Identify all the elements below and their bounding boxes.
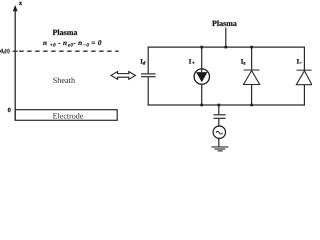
electrode box bbox=[15, 110, 117, 121]
wire current-source branch upper bbox=[201, 47, 203, 73]
RF source circle bbox=[213, 126, 225, 138]
ground line 1 bbox=[211, 146, 228, 148]
junction bottom rail at source chain bbox=[218, 104, 221, 107]
bottom rail bbox=[148, 104, 305, 106]
svg-text:0: 0 bbox=[8, 107, 11, 114]
wire source chain middle bbox=[218, 119, 220, 126]
wire source chain lower bbox=[218, 138, 220, 146]
dashed sheath-edge line bbox=[19, 50, 118, 52]
wire diode Ie branch upper bbox=[251, 47, 253, 71]
axis tick at ds(t) bbox=[13, 50, 18, 52]
diode Ie triangle bbox=[244, 71, 260, 85]
capacitor Cs top plate bbox=[141, 73, 156, 75]
junction top rail at I+ branch bbox=[200, 46, 203, 49]
diode Ie cathode bar bbox=[244, 69, 260, 71]
equivalence double arrow bbox=[111, 72, 135, 80]
wire capacitor branch upper bbox=[147, 47, 149, 74]
diode I- triangle bbox=[296, 71, 312, 85]
diode I- cathode bar bbox=[297, 69, 312, 71]
svg-text:Sheath: Sheath bbox=[53, 76, 75, 85]
wire diode Ie branch lower bbox=[251, 85, 253, 106]
axis arrowhead bbox=[13, 5, 18, 11]
plasma stub wire bbox=[225, 28, 227, 48]
ground line 2 bbox=[214, 148, 225, 150]
junction bottom rail at Ie branch bbox=[250, 104, 253, 107]
capacitor Cs bottom plate bbox=[141, 76, 156, 78]
ground line 3 bbox=[218, 150, 223, 152]
junction top rail at Ie branch bbox=[250, 46, 253, 49]
top rail bbox=[148, 46, 305, 48]
svg-text:Electrode: Electrode bbox=[53, 111, 84, 120]
svg-text:Plasma: Plasma bbox=[212, 19, 237, 28]
junction bottom rail at I+ branch bbox=[200, 104, 203, 107]
wire source chain upper bbox=[218, 105, 220, 114]
svg-text:ds(t): ds(t) bbox=[0, 48, 10, 54]
current source I+ arrow triangle bbox=[196, 72, 207, 82]
blocking capacitor bottom plate bbox=[214, 117, 226, 119]
wire current-source branch lower bbox=[201, 84, 203, 105]
wire capacitor branch lower bbox=[147, 77, 149, 106]
RF source sine symbol bbox=[216, 131, 223, 134]
junction top rail at plasma stub bbox=[225, 46, 228, 49]
blocking capacitor top plate bbox=[214, 114, 226, 116]
x axis vertical line bbox=[14, 9, 16, 120]
current source I+ circle bbox=[194, 69, 209, 84]
wire diode I- branch lower bbox=[303, 85, 305, 106]
wire diode I- branch upper bbox=[303, 47, 305, 71]
svg-text:Plasma: Plasma bbox=[53, 28, 78, 37]
